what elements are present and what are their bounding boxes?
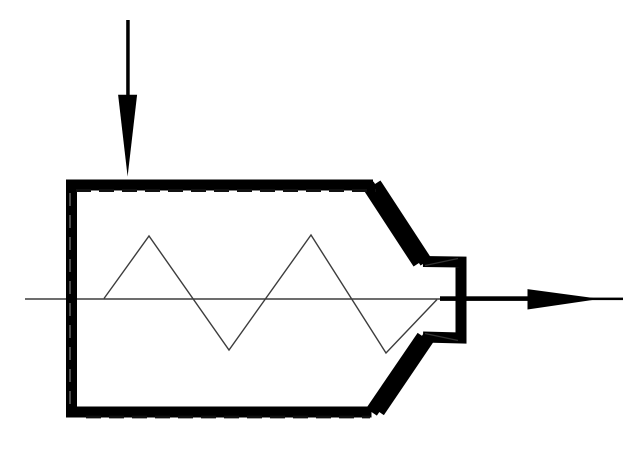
dashed overdraw on bottom wall (86, 416, 370, 419)
chamber body walls (72, 185, 374, 412)
nozzle exit bracket (423, 262, 461, 339)
input feed arrowhead (118, 95, 137, 177)
dashed overdraw on left wall (69, 193, 71, 406)
chamber converging bottom diagonal stroke 1 (372, 337, 424, 413)
chamber converging bottom diagonal stroke 2 (379, 336, 431, 412)
outlet arrow shaft (440, 296, 528, 301)
centerline (horizontal axis) (25, 298, 445, 300)
input feed arrow shaft (126, 20, 130, 96)
zigzag mixing element (104, 235, 437, 353)
chamber converging top diagonal stroke 1 (368, 185, 419, 263)
outlet arrowhead (528, 289, 601, 309)
chamber converging top diagonal stroke 2 (375, 184, 426, 262)
thin overdraw stroke along top lip (425, 259, 458, 266)
outlet arrow leader line (590, 298, 623, 301)
thin overdraw stroke along bottom lip (425, 334, 458, 341)
dashed overdraw on top wall (76, 189, 376, 192)
